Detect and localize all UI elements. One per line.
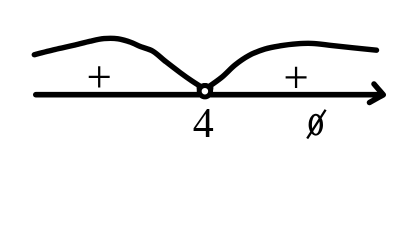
wire right hump curve	[206, 43, 377, 89]
svg-text:4: 4	[193, 101, 214, 147]
svg-text:+: +	[87, 52, 112, 102]
wire left hump curve	[34, 38, 205, 89]
wire number line	[36, 92, 378, 98]
node open circle at 4	[199, 86, 210, 97]
svg-text:+: +	[283, 52, 308, 102]
wire arrowhead	[370, 84, 384, 103]
junction blob where curves meet circle top	[197, 83, 214, 91]
label empty set symbol	[307, 110, 325, 139]
